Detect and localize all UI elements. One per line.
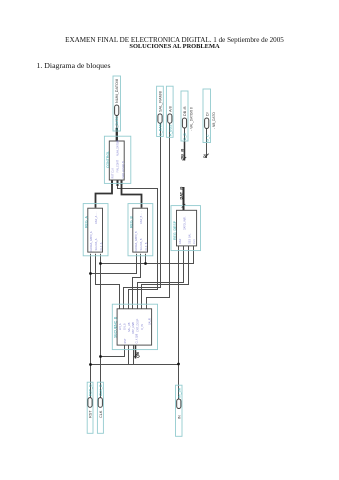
svg-text:SALIDA_A: SALIDA_A: [95, 238, 98, 250]
svg-text:RST: RST: [89, 410, 93, 418]
svg-text:CONTROL: CONTROL: [106, 151, 110, 168]
svg-text:D_IN: D_IN: [141, 324, 144, 330]
svg-text:CAR: CAR: [179, 239, 182, 244]
svg-text:DAT_EN/8: DAT_EN/8: [132, 322, 135, 334]
svg-text:FIN_CONT: FIN_CONT: [117, 160, 120, 173]
svg-text:DATO_IN/8 .: DATO_IN/8 .: [184, 216, 187, 230]
svg-text:S_RAM: S_RAM: [159, 123, 163, 135]
svg-text:- VAL_DATO/8 8: - VAL_DATO/8 8: [190, 107, 194, 131]
svg-text:CLK_B: CLK_B: [145, 242, 148, 250]
svg-text:DB /8: DB /8: [183, 107, 187, 117]
svg-text:RST: RST: [124, 338, 127, 343]
svg-text:DAT_/8: DAT_/8: [180, 187, 184, 200]
svg-text:CNT_DESP: CNT_DESP: [137, 318, 140, 332]
svg-text:CLK Q/8: CLK Q/8: [136, 333, 139, 343]
svg-text:CAR_A CAR_B: CAR_A CAR_B: [122, 161, 125, 179]
svg-text:CLK: CLK: [99, 410, 103, 418]
svg-text:NUM_DATO/8: NUM_DATO/8: [117, 140, 120, 156]
svg-text:A_BUS: A_BUS: [168, 124, 172, 136]
svg-text:REG_A: REG_A: [85, 215, 89, 228]
svg-text:D_B: D_B: [183, 133, 187, 140]
svg-text:RST_G: RST_G: [89, 384, 93, 396]
svg-text:D/: D/: [205, 111, 209, 116]
svg-text:DES SAL: DES SAL: [188, 233, 191, 244]
svg-text:CAR_A . . .: CAR_A . . .: [95, 211, 98, 224]
svg-text:REG_B: REG_B: [130, 215, 134, 228]
svg-text:NUM_DATO/8: NUM_DATO/8: [115, 79, 119, 103]
svg-text:REG_DESP: REG_DESP: [173, 220, 177, 240]
svg-text:RST CLK: RST CLK: [112, 168, 115, 179]
svg-text:SALIDA_B: SALIDA_B: [140, 238, 143, 250]
svg-text:D_C: D_C: [205, 134, 209, 141]
svg-text:IN: IN: [178, 415, 182, 419]
svg-text:CLK_A: CLK_A: [100, 242, 103, 250]
svg-text:A/8: A/8: [168, 106, 172, 112]
svg-text:EN_B: EN_B: [123, 323, 126, 330]
svg-text:SAL/8: SAL/8: [149, 318, 152, 325]
svg-text:CAR_B . . .: CAR_B . . .: [140, 211, 143, 224]
svg-text:SAL_RAM/8: SAL_RAM/8: [159, 91, 163, 112]
svg-text:CARGA_DATO_A: CARGA_DATO_A: [90, 231, 93, 251]
svg-text:SAL_AB: SAL_AB: [128, 322, 131, 332]
svg-text:IN_SR: IN_SR: [178, 387, 182, 398]
svg-text:CLK: CLK: [193, 239, 196, 244]
svg-text:- NB_DATO: - NB_DATO: [212, 112, 216, 129]
svg-text:CARGA_DATO_B: CARGA_DATO_B: [135, 231, 138, 251]
svg-text:DB_/8: DB_/8: [181, 149, 185, 160]
svg-text:CLK_G: CLK_G: [99, 384, 103, 396]
svg-text:EN_A: EN_A: [119, 323, 122, 330]
svg-text:N_DATO: N_DATO: [115, 116, 119, 130]
svg-text:SECUENC_B: SECUENC_B: [114, 316, 118, 338]
